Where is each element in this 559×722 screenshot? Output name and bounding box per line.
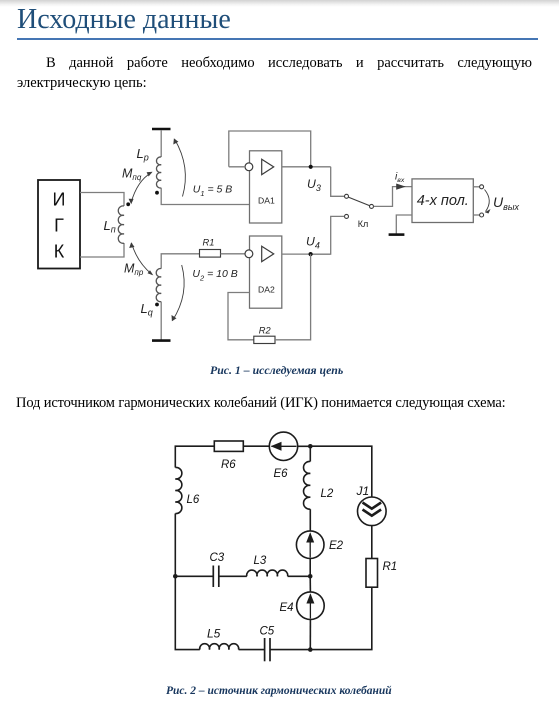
- svg-text:C5: C5: [260, 626, 275, 638]
- source E4: [297, 592, 325, 620]
- voltage arc Uвых: [485, 190, 490, 212]
- voltage arc U1: [175, 139, 186, 197]
- inductor Lq: [156, 269, 161, 302]
- svg-text:R2: R2: [259, 326, 272, 336]
- node dot Ln phase: [126, 202, 130, 206]
- wire E4 to bottom node: [309, 620, 311, 650]
- terminal circle output bottom: [480, 213, 484, 217]
- wire quadripole output bottom: [473, 214, 479, 216]
- wire top-left corner to R6: [175, 446, 214, 467]
- svg-text:J1: J1: [356, 484, 370, 498]
- svg-text:Lp: Lp: [137, 146, 149, 163]
- wire L5 to C5: [239, 649, 265, 651]
- FIG1: [38, 129, 519, 344]
- wire Lp bottom to DA1 input: [161, 188, 249, 205]
- svg-text:E4: E4: [280, 602, 294, 614]
- svg-text:Кл: Кл: [358, 219, 369, 229]
- op-amp DA1 triangle: [262, 159, 274, 174]
- wire L6 to left node: [174, 514, 176, 577]
- terminal bar bottom of Lq: [152, 339, 171, 342]
- wire U3 to switch: [331, 167, 344, 197]
- node middle junction: [308, 574, 313, 579]
- wire quadripole lower input to ground: [396, 215, 412, 234]
- resistor R1: [366, 559, 378, 588]
- inductor Lp: [156, 157, 161, 188]
- wire R1 to DA2 input: [221, 253, 246, 255]
- inductor L3: [247, 570, 288, 576]
- wire R2 to U4 node: [275, 254, 311, 340]
- node bottom junction: [308, 647, 313, 652]
- op-amp DA1 inverting input circle: [245, 163, 253, 171]
- svg-text:L6: L6: [187, 494, 200, 506]
- svg-text:U1 = 5 В: U1 = 5 В: [193, 184, 233, 198]
- wire DA1 feedback loop: [229, 131, 311, 167]
- svg-text:Mпр: Mпр: [124, 261, 144, 277]
- ground: [389, 233, 405, 236]
- wire left node to C3: [175, 575, 213, 577]
- wire R6 to E6: [243, 445, 269, 447]
- wire J1 to R1: [371, 526, 373, 559]
- wire Lp top: [160, 130, 162, 157]
- svg-text:R6: R6: [221, 459, 236, 471]
- op-amp DA2 inverting input circle: [245, 250, 253, 258]
- svg-text:U3: U3: [307, 177, 321, 193]
- node U4: [309, 252, 313, 256]
- svg-text:E2: E2: [329, 540, 344, 552]
- op-amp DA2 box: [250, 236, 282, 308]
- svg-text:Lп: Lп: [104, 218, 116, 235]
- svg-text:4-х пол.: 4-х пол.: [417, 193, 469, 209]
- svg-text:E6: E6: [274, 468, 289, 480]
- wire DA2 feedback via R2: [228, 293, 254, 340]
- wire quadripole output top: [473, 186, 479, 188]
- capacitor C3: [212, 566, 214, 588]
- wire left node to bottom-left corner: [175, 576, 200, 649]
- voltage arc U2: [173, 265, 185, 321]
- wire R1 to bottom-right corner: [310, 587, 372, 649]
- resistor R6: [214, 441, 243, 451]
- wire top node to top-right corner: [310, 446, 372, 497]
- wire middle node to E4: [309, 576, 311, 592]
- svg-text:Lq: Lq: [141, 301, 153, 318]
- wire top node to L2: [309, 446, 311, 461]
- current source J1: [358, 497, 387, 526]
- wire DA1 output to U3 node: [282, 166, 331, 168]
- switch blade: [349, 197, 370, 205]
- svg-text:R1: R1: [383, 561, 398, 573]
- wire switch common to quadripole input: [374, 187, 412, 207]
- coupling arrow Mпq: [131, 173, 152, 204]
- op-amp DA1 box: [250, 151, 282, 223]
- resistor R1: [200, 250, 221, 258]
- wire C3 to L3: [219, 575, 247, 577]
- wire bottom-left corner to L5: [199, 649, 201, 651]
- inductor L6: [175, 467, 182, 513]
- switch lower throw contact: [345, 214, 349, 218]
- svg-text:DA2: DA2: [258, 285, 275, 295]
- svg-text:R1: R1: [203, 238, 215, 248]
- svg-text:L5: L5: [207, 627, 221, 641]
- op-amp DA2 triangle: [262, 246, 274, 261]
- wire C5 to bottom node: [270, 649, 310, 651]
- node U3: [309, 165, 313, 169]
- svg-text:U4: U4: [306, 235, 320, 251]
- node top junction: [308, 444, 313, 449]
- svg-text:L2: L2: [321, 488, 334, 500]
- node dot Lq phase: [155, 303, 159, 307]
- wire Lq bottom: [160, 302, 162, 340]
- svg-text:И: И: [53, 190, 66, 210]
- terminal bar top of Lp: [152, 128, 171, 131]
- resistor R2: [254, 336, 275, 343]
- block ИГК: [38, 180, 80, 269]
- svg-text:U2 = 10 В: U2 = 10 В: [192, 268, 237, 282]
- svg-text:C3: C3: [210, 552, 225, 564]
- wire Lq top to R1: [161, 254, 199, 269]
- svg-text:L3: L3: [254, 555, 267, 567]
- terminal circle output top: [480, 185, 484, 189]
- current arrow iвх: [396, 184, 406, 190]
- svg-text:Mпq: Mпq: [122, 167, 142, 183]
- quadripole block 4-х пол.: [412, 179, 473, 223]
- switch Кл pole contact: [345, 194, 349, 198]
- wire ИГК bottom output to Ln: [80, 243, 124, 257]
- node left junction: [173, 574, 178, 579]
- wire E6 to top node: [298, 445, 311, 447]
- wire DA2 output to U4 node: [282, 253, 331, 255]
- svg-text:DA1: DA1: [258, 196, 275, 206]
- svg-text:Uвых: Uвых: [493, 194, 519, 212]
- capacitor C5: [264, 638, 266, 661]
- node dot Lp phase: [155, 191, 159, 195]
- coupling arrow Mпр: [132, 243, 153, 275]
- wire ИГК top output to Ln: [80, 193, 124, 207]
- source E2: [296, 531, 324, 559]
- switch common contact: [370, 204, 374, 208]
- svg-text:iвх: iвх: [395, 172, 405, 185]
- wire L3 to middle node: [288, 575, 311, 577]
- svg-text:К: К: [54, 242, 65, 262]
- inductor L2: [304, 461, 311, 509]
- wire E2 to middle node: [309, 559, 311, 577]
- svg-text:Г: Г: [54, 216, 64, 236]
- inductor L5: [200, 644, 239, 650]
- source E6: [269, 432, 297, 460]
- FIG2: [173, 432, 397, 661]
- inductor Ln: [118, 206, 124, 243]
- wire L2 to E2: [309, 509, 311, 531]
- wire U4 to lower throw: [311, 216, 345, 254]
